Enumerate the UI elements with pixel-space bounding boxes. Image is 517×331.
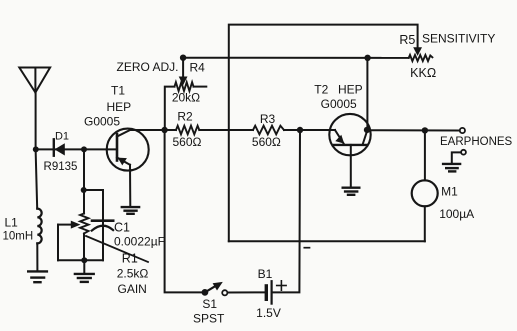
node D1-T1 junction bbox=[81, 146, 87, 152]
svg-text:HEP: HEP bbox=[106, 100, 131, 114]
svg-text:1.5V: 1.5V bbox=[256, 306, 281, 320]
svg-text:20kΩ: 20kΩ bbox=[172, 90, 200, 104]
ground T2 bbox=[343, 188, 360, 195]
svg-text:ZERO ADJ.: ZERO ADJ. bbox=[116, 60, 178, 74]
wire R3 to T2 emitter bbox=[284, 129, 335, 131]
node R4-S1 junction bbox=[161, 127, 167, 133]
ground R1C1 bbox=[75, 260, 94, 282]
wire S1 branch: from R2 node down and right to switch bbox=[165, 130, 205, 292]
battery B1 bbox=[228, 281, 272, 303]
svg-text:C1: C1 bbox=[114, 220, 130, 234]
svg-text:SPST: SPST bbox=[193, 312, 225, 326]
node battery branch junction bbox=[297, 127, 303, 133]
node R4 wiper on zero-adj wire bbox=[180, 55, 186, 61]
capacitor C1 bbox=[92, 221, 113, 231]
resistor R2 bbox=[176, 126, 199, 135]
antenna bbox=[19, 68, 50, 93]
svg-text:D1: D1 bbox=[55, 130, 69, 142]
svg-text:B1: B1 bbox=[258, 267, 273, 281]
svg-text:G0005: G0005 bbox=[84, 114, 120, 128]
ground T1 bbox=[122, 207, 139, 214]
meter M1 bbox=[412, 130, 438, 241]
svg-text:S1: S1 bbox=[202, 297, 217, 311]
wire D1/base wire from antenna node to T1 base bbox=[36, 148, 117, 150]
transistor T2 bbox=[329, 114, 370, 188]
terminal earphones jack lower bbox=[461, 150, 466, 155]
wire zero-adj line to R5 bbox=[183, 57, 409, 59]
svg-text:HEP: HEP bbox=[338, 82, 363, 96]
potentiometer R5 wiper arrow bbox=[413, 47, 422, 56]
diode D1 bbox=[54, 139, 65, 155]
svg-text:R4: R4 bbox=[190, 60, 206, 74]
ground antenna-L1 bbox=[28, 271, 47, 282]
wire main rail T1 collector to R2 bbox=[131, 129, 177, 131]
svg-text:100µA: 100µA bbox=[439, 207, 474, 221]
resistor R3 bbox=[253, 126, 284, 135]
potentiometer R4 bbox=[165, 58, 207, 130]
wire T2 collector to earphones terminal bbox=[367, 129, 460, 131]
wire bottom rail M1 to left vertical bbox=[229, 240, 425, 242]
svg-text:GAIN: GAIN bbox=[118, 282, 147, 296]
node R1C1 bottom bbox=[81, 257, 87, 263]
wire C1 branch vertical bbox=[102, 190, 104, 260]
svg-text:R3: R3 bbox=[260, 112, 276, 126]
svg-text:KKΩ: KKΩ bbox=[410, 66, 436, 80]
wire R2 to R3 bbox=[199, 129, 253, 131]
svg-text:R2: R2 bbox=[177, 110, 193, 124]
wire battery branch vertical bbox=[273, 130, 301, 292]
svg-text:560Ω: 560Ω bbox=[252, 135, 281, 149]
wire from D1 node down to R1C1 top node bbox=[83, 149, 85, 190]
svg-text:R9135: R9135 bbox=[44, 161, 78, 173]
svg-text:T1: T1 bbox=[111, 84, 125, 98]
svg-text:T2: T2 bbox=[314, 82, 328, 96]
wire R1C1 bottom rail bbox=[58, 259, 103, 261]
wire R1C1 top rail bbox=[84, 189, 103, 191]
inductor L1 bbox=[36, 149, 42, 271]
battery minus mark bbox=[304, 247, 309, 249]
node T2 collector branch on zero-adj wire bbox=[364, 55, 370, 61]
battery plus sign bbox=[277, 281, 286, 290]
svg-text:2.5kΩ: 2.5kΩ bbox=[117, 267, 149, 281]
node T2 collector bbox=[364, 127, 370, 133]
wire antenna mast down to D1 node bbox=[35, 93, 37, 150]
svg-text:SENSITIVITY: SENSITIVITY bbox=[422, 32, 495, 46]
wire jack to ground bbox=[452, 152, 461, 163]
potentiometer R5 zigzag bbox=[409, 55, 433, 61]
svg-text:R5: R5 bbox=[399, 33, 415, 47]
transistor T1 bbox=[107, 129, 149, 207]
leader line R1 label bbox=[86, 236, 148, 262]
svg-text:10mH: 10mH bbox=[3, 231, 34, 243]
node M1 branch bbox=[422, 127, 428, 133]
svg-text:R1: R1 bbox=[122, 251, 138, 265]
wire T2 collector vertical bbox=[366, 58, 368, 130]
switch S1 bbox=[202, 282, 228, 296]
svg-text:EARPHONES: EARPHONES bbox=[440, 136, 513, 148]
potentiometer R1 bbox=[58, 190, 89, 260]
svg-text:G0005: G0005 bbox=[321, 97, 357, 111]
node R1C1 top bbox=[81, 187, 87, 193]
terminal earphones top bbox=[460, 128, 465, 133]
wire top rail loop bbox=[229, 25, 418, 242]
svg-text:560Ω: 560Ω bbox=[173, 135, 202, 149]
node antenna-D1 junction bbox=[33, 146, 39, 152]
ground earphone jack bbox=[443, 164, 460, 172]
svg-text:0.0022µF: 0.0022µF bbox=[114, 235, 165, 249]
svg-text:M1: M1 bbox=[441, 184, 458, 198]
svg-text:L1: L1 bbox=[5, 216, 19, 230]
